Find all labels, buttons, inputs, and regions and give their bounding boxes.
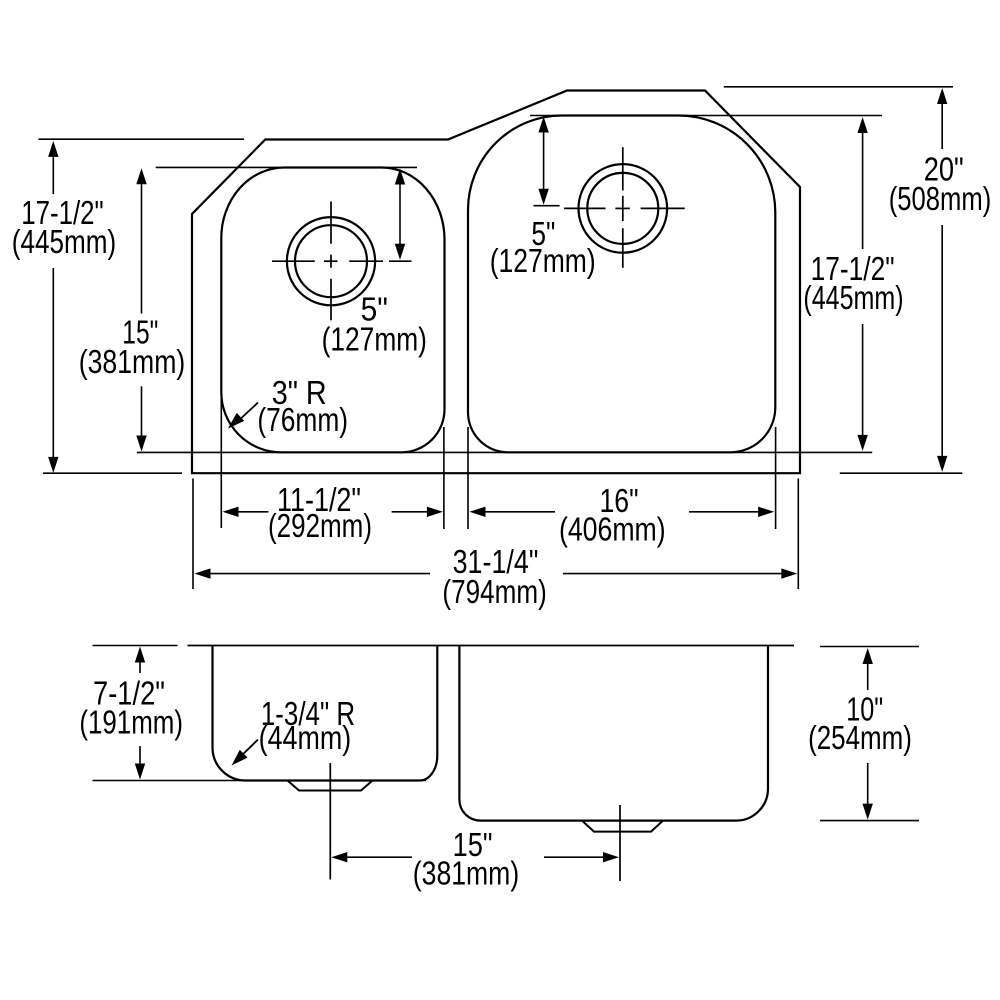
right drain fitting (side view) — [582, 821, 663, 832]
left bowl section (side view) — [213, 646, 438, 781]
dim 7-1/2 vertical — [139, 661, 141, 673]
node left drain centerlines — [330, 202, 332, 244]
svg-text:(445mm): (445mm) — [803, 279, 903, 316]
wire ext left-bowl left width ref — [220, 392, 222, 528]
node left drain circles — [287, 217, 375, 305]
node right drain centerline (side) — [619, 805, 621, 881]
dim 16in horizontal — [485, 511, 556, 513]
dim 15in vertical — [141, 183, 143, 314]
wire ext right-bowl right width ref — [775, 427, 777, 529]
svg-text:(508mm): (508mm) — [889, 180, 992, 217]
dim 5in left-drain vertical — [399, 183, 401, 246]
wire ext bottom-right 20in ref — [840, 472, 963, 474]
wire ext 7-1/2 top ref — [93, 645, 178, 647]
wire ext left-bowl top / 15in ref — [156, 166, 417, 168]
dim 5in right-drain vertical — [543, 131, 545, 190]
wire 1-3/4in R callout arrow — [237, 740, 259, 761]
wire ext deck right 31-1/4 ref — [797, 479, 799, 590]
wire 3in R callout arrow — [235, 403, 258, 425]
wire ext 20in top ref — [724, 86, 953, 88]
dim 20in vertical — [941, 103, 943, 149]
left bowl outline (top view) — [221, 168, 444, 453]
wire ext right-bowl top / 17-1/2 right ref — [530, 115, 882, 117]
dim 15in bottom horizontal — [347, 856, 412, 858]
node right drain centerlines — [622, 147, 624, 190]
wire ext 10in top ref — [820, 646, 919, 648]
wire ext bowls bottom ref — [137, 451, 872, 453]
node right drain circles — [579, 164, 668, 253]
dim 31-1/4 horizontal — [210, 573, 431, 575]
svg-text:(445mm): (445mm) — [12, 223, 116, 260]
right bowl outline (top view) — [468, 115, 775, 452]
right bowl section (side view) — [459, 646, 768, 821]
svg-text:(127mm): (127mm) — [490, 242, 596, 279]
node left drain centerline (side) — [329, 763, 331, 880]
svg-text:(381mm): (381mm) — [79, 343, 186, 380]
wire ext deck left 31-1/4 ref — [192, 479, 194, 590]
wire ext bottom-left 17-1/2 ref — [43, 472, 182, 474]
svg-text:(381mm): (381mm) — [413, 855, 519, 892]
svg-text:(191mm): (191mm) — [79, 704, 183, 741]
dim 17-1/2 left vertical — [52, 155, 54, 194]
wire ext right-bowl left width ref — [467, 427, 469, 529]
sink deck outline (top view) — [192, 91, 800, 474]
left drain fitting (side view) — [288, 781, 373, 791]
svg-text:(44mm): (44mm) — [259, 719, 352, 756]
wire ext 10in bottom ref — [820, 820, 919, 822]
svg-text:(406mm): (406mm) — [559, 511, 666, 548]
svg-text:(254mm): (254mm) — [808, 719, 912, 756]
dim 17-1/2 right vertical — [862, 132, 864, 249]
svg-text:(292mm): (292mm) — [268, 507, 372, 544]
wire ext left-bowl right width ref — [443, 427, 445, 529]
dim 11-1/2 horizontal — [238, 511, 269, 513]
wire ext top-left 17-1/2 ref — [38, 138, 244, 140]
sink top line (side view) — [188, 645, 795, 647]
svg-text:(794mm): (794mm) — [442, 573, 546, 610]
svg-text:(76mm): (76mm) — [257, 401, 348, 438]
svg-text:(127mm): (127mm) — [322, 320, 427, 357]
dim 10in vertical — [867, 663, 869, 690]
wire tick 5in right ref — [534, 205, 560, 207]
wire ext 7-1/2 bottom ref / left bowl bottom — [93, 780, 427, 782]
